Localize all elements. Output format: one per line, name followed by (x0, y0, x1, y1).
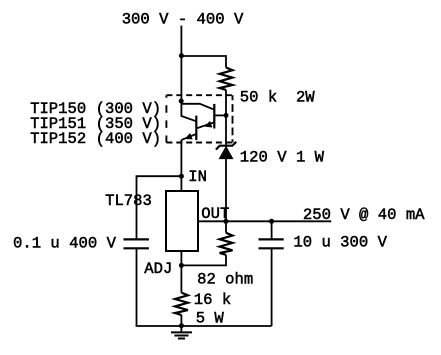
wire 50k to zener (225, 90, 227, 145)
svg-text:10 u 300 V: 10 u 300 V (293, 234, 387, 252)
transistor Q1 emitter lead (197, 122, 214, 128)
svg-text:250 V @ 40 mA: 250 V @ 40 mA (303, 206, 425, 224)
resistor R3 82ohm lead (225, 221, 227, 233)
resistor R3 82ohm zigzag (220, 233, 233, 255)
transistor Q1 collector lead (181, 104, 214, 110)
node dot OUT at 10u cap (269, 219, 274, 224)
node dot base junction (224, 113, 229, 118)
svg-text:ADJ: ADJ (144, 260, 172, 278)
resistor R1 50k zigzag (220, 68, 233, 90)
svg-text:IN: IN (188, 168, 207, 186)
zener D1 anode triangle (219, 147, 232, 159)
svg-text:50 k 2W: 50 k 2W (240, 88, 316, 106)
wire 10u cap to bottom rail (271, 249, 273, 326)
svg-text:82 ohm: 82 ohm (197, 270, 253, 288)
wire ADJ to 16k (180, 265, 182, 292)
transistor Q2 base bar (195, 116, 197, 141)
resistor R4 16k zigzag (175, 293, 188, 315)
capacitor C2 plates 10u (259, 238, 284, 240)
transistor Q2 emitter lead (182, 134, 197, 140)
wire zener to OUT line (225, 159, 227, 222)
wire emitter down through IN to regulator (180, 140, 182, 191)
transistor Q1 base bar (213, 104, 215, 129)
svg-text:0.1 u 400 V: 0.1 u 400 V (13, 234, 117, 252)
svg-text:TIP152 (400 V): TIP152 (400 V) (30, 130, 161, 148)
svg-text:OUT: OUT (201, 205, 229, 223)
wire to 10u cap (271, 221, 273, 238)
wire OUT line with 250 underline (198, 220, 331, 222)
zener D1 cathode bar (216, 142, 236, 150)
transistor Q1 base lead to node (214, 114, 226, 116)
node dot OUT at 82ohm (223, 219, 228, 224)
wire top branch to 50k (181, 56, 226, 68)
capacitor C1 plates 0.1u (124, 238, 149, 240)
wire ADJ to 82ohm (181, 255, 226, 266)
regulator U1 TL783 box (166, 191, 198, 251)
transistor Q1 emitter arrow (204, 121, 212, 128)
wire main down to darlington (180, 56, 182, 101)
node dot ground junction (179, 323, 184, 328)
wire bottom rail (136, 325, 272, 327)
transistor Q1 dashed package box bottom edge (166, 142, 232, 144)
transistor Q1 dashed package box left edge (165, 95, 167, 142)
wire 0.1u cap to bottom rail (136, 249, 138, 326)
node dot IN (179, 174, 184, 179)
wire IN to left (137, 176, 182, 239)
wire 16k to ground (180, 315, 182, 326)
svg-text:5 W: 5 W (196, 310, 225, 328)
transistor Q1 dashed package box top edge (166, 94, 232, 96)
svg-text:TL783: TL783 (105, 192, 152, 210)
svg-text:120 V 1 W: 120 V 1 W (240, 148, 325, 166)
node dot collector junction (179, 99, 184, 104)
wire top feed (180, 26, 182, 56)
transistor Q2 emitter arrow (185, 133, 193, 139)
ground symbol (180, 326, 182, 333)
node dot top branch (179, 53, 184, 58)
wire ADJ stub (180, 251, 182, 265)
transistor Q1 dashed package box right edge (232, 95, 234, 142)
svg-text:16 k: 16 k (194, 291, 231, 309)
node dot ADJ (179, 263, 184, 268)
transistor Q2 collector lead (181, 101, 196, 121)
svg-text:300 V - 400 V: 300 V - 400 V (122, 11, 244, 29)
